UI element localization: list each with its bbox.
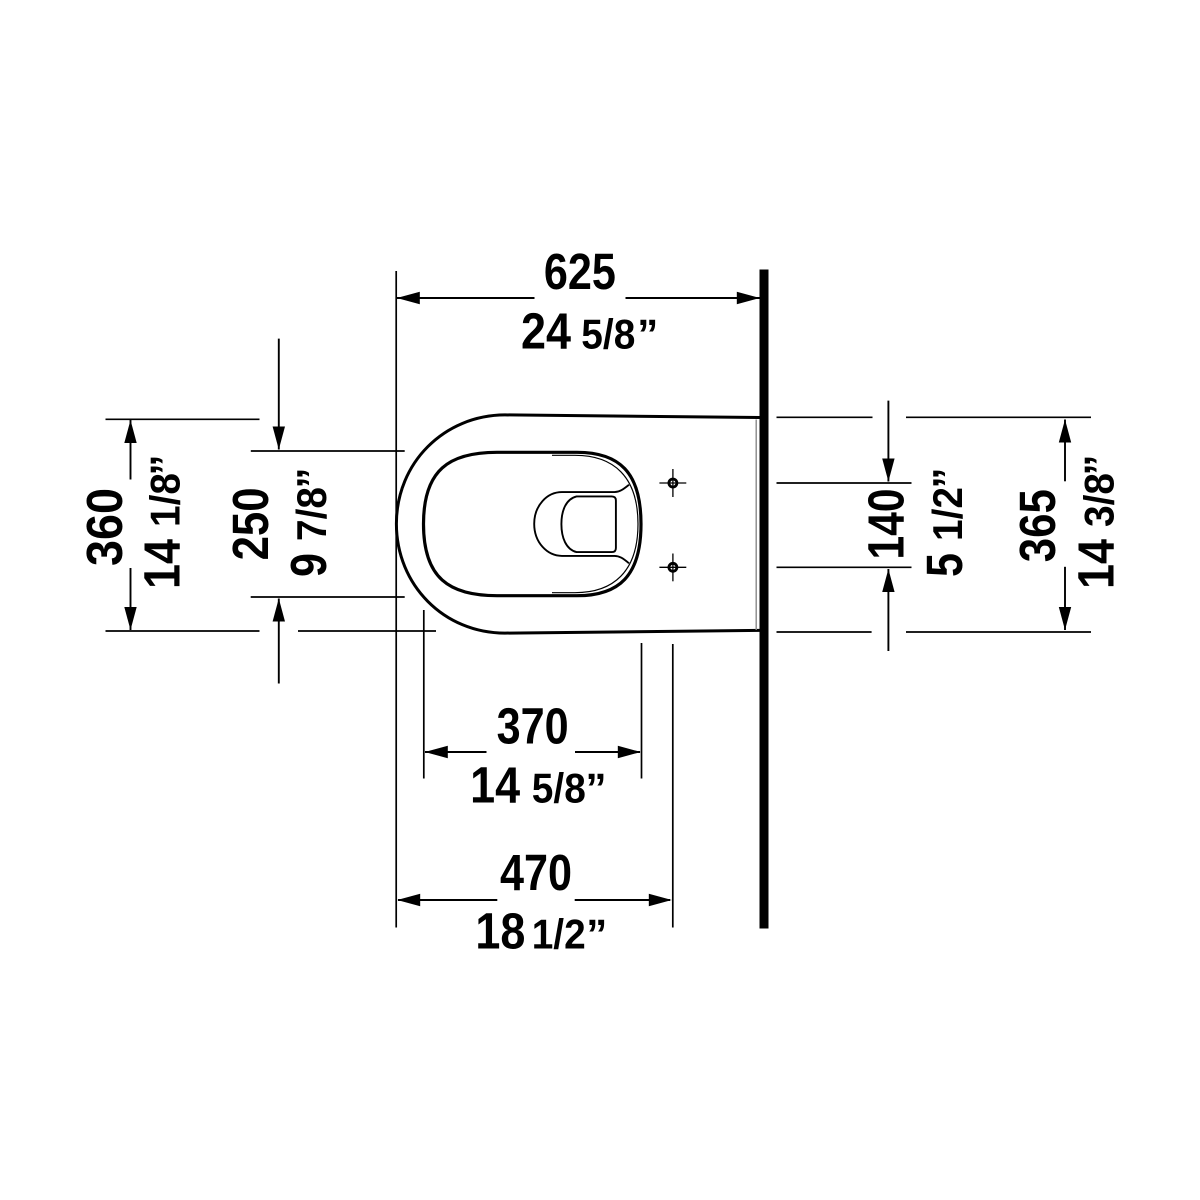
svg-text:14: 14 [133,538,190,589]
toilet body outline [396,415,759,633]
svg-text:365: 365 [1009,489,1066,562]
extension line front of toilet (shared 625/470) [395,271,397,928]
label 14 1/8 inch [133,455,190,590]
svg-text:”: ” [924,468,971,489]
svg-text:”: ” [637,310,658,357]
svg-text:5: 5 [916,553,973,577]
mounting hole 2 [659,554,686,582]
label 18 1/2 inch [475,903,607,960]
dimension 370 extension lines [424,610,642,779]
svg-text:250: 250 [222,487,279,560]
svg-text:18: 18 [475,903,525,960]
svg-text:1/2: 1/2 [532,911,586,958]
bowl rim inner thin line [552,455,638,592]
svg-text:”: ” [141,455,188,476]
label 14 3/8 inch [1068,455,1125,590]
toilet back edge thin line [755,420,757,631]
svg-text:14: 14 [1068,538,1125,589]
svg-text:14: 14 [470,757,521,814]
bowl rim outer oval [424,452,642,595]
wall [760,270,769,929]
svg-text:5/8: 5/8 [581,310,635,357]
svg-text:1/2: 1/2 [924,487,971,541]
mounting hole 1 [659,469,686,497]
label 250 [222,487,279,560]
svg-text:625: 625 [544,243,616,300]
dimension 250 line [273,339,285,684]
label 5 1/2 inch [916,468,973,578]
label 365 [1009,489,1066,562]
svg-text:1/8: 1/8 [141,473,188,527]
svg-text:”: ” [288,468,335,489]
svg-text:”: ” [586,911,607,958]
svg-text:140: 140 [858,489,915,560]
label 140 [858,489,915,560]
label 360 [76,488,133,566]
svg-text:9: 9 [280,553,337,577]
label 14 5/8 inch [470,757,606,814]
dimension 470 right extension line [672,644,674,928]
dimension 140 extension lines [777,483,912,567]
label 9 7/8 inch [280,468,337,578]
dimension 365 line [1059,420,1071,631]
label 370 [497,698,569,755]
dimension 360 extension lines [106,419,437,631]
svg-text:”: ” [1076,455,1123,476]
dimension 470 line [397,894,672,906]
flush opening D shape [561,496,616,552]
svg-text:7/8: 7/8 [288,487,335,541]
svg-text:470: 470 [500,844,572,901]
label 470 [500,844,572,901]
label 625 [544,243,616,300]
svg-text:24: 24 [521,302,572,359]
flush rim channel [534,485,629,564]
svg-text:”: ” [586,765,607,812]
dimension 370 line [425,746,641,758]
svg-text:370: 370 [497,698,569,755]
dimension 250 extension lines [251,451,405,597]
svg-text:3/8: 3/8 [1076,473,1123,527]
dimension 140 line [882,401,894,651]
dimension 625 line [397,292,760,304]
svg-text:5/8: 5/8 [532,765,586,812]
svg-text:360: 360 [76,488,133,566]
dimension 365 extension lines [777,417,1092,632]
dimension 360 line [124,420,136,630]
label 24 5/8 inch [521,302,658,359]
